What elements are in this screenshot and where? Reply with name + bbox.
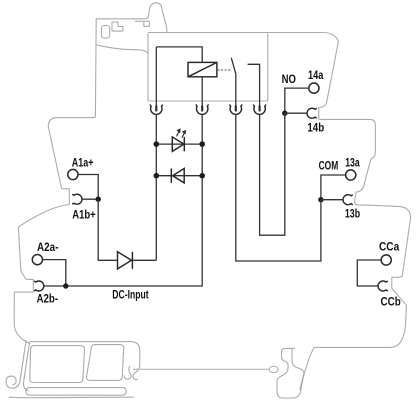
module outline: DIN rail edge line: [133, 366, 278, 372]
wire: left rail down to socket 1 pin: [155, 47, 157, 106]
module outline: bottom right foot: [277, 348, 314, 399]
svg-text:A1b+: A1b+: [72, 207, 95, 221]
NO fixed contact bracket: [248, 64, 260, 106]
wire: junction to 14b socket: [285, 112, 307, 114]
svg-text:A1a+: A1a+: [72, 156, 94, 170]
svg-text:CCa: CCa: [379, 240, 400, 254]
LED arrows: [177, 129, 186, 138]
junction dots on LED rails: [154, 141, 206, 178]
module outline: left profile with A-terminal steps: [14, 19, 96, 294]
svg-text:13b: 13b: [345, 207, 360, 221]
relay coil K1: [188, 62, 217, 76]
svg-text:COM: COM: [319, 159, 339, 173]
junction dot A1: [96, 197, 101, 202]
svg-text:14b: 14b: [307, 121, 324, 135]
wire: A1 junction down to diode: [98, 199, 117, 260]
terminal 14a circle: [309, 83, 319, 93]
socket connector 3: [229, 105, 242, 115]
svg-text:DC-Input: DC-Input: [112, 287, 148, 301]
wire: A2a- to junction: [42, 260, 65, 286]
socket connector 2: [196, 105, 209, 115]
terminal A2a- circle: [32, 255, 42, 265]
module outline: bottom left DIN-rail foot: [6, 293, 140, 397]
wire: A1b+ to junction: [82, 198, 98, 200]
socket connector 1: [150, 105, 163, 115]
wire: LED row 2: [156, 175, 202, 177]
wire: A2b- to junction: [44, 285, 66, 287]
svg-text:A2a-: A2a-: [37, 240, 59, 254]
junction dot 13: [318, 197, 323, 202]
socket connector 4: [253, 105, 266, 115]
terminal A1b+ socket: [72, 194, 82, 204]
module outline: top release lever clip: [96, 3, 167, 54]
svg-text:14a: 14a: [308, 68, 324, 82]
wire: CCa to CCb bracket: [357, 260, 381, 286]
wire: junction to 13b socket: [321, 199, 343, 201]
wire: NO net inner U from 14 junction to socket 4: [260, 113, 285, 235]
module outline: relay compartment box: [148, 34, 268, 102]
switch blade (movable contact): [231, 58, 236, 106]
junction dot 14: [282, 111, 287, 116]
diode V2 (anti-parallel): [171, 168, 184, 183]
svg-text:NO: NO: [282, 72, 296, 86]
terminal CCa circle: [381, 255, 391, 265]
svg-text:CCb: CCb: [381, 294, 401, 308]
module outline: top edge and right profile with terminal steps: [148, 33, 411, 348]
junction dot A2: [63, 283, 68, 288]
terminal A1a+ circle: [68, 169, 78, 179]
terminal A2b- socket: [34, 281, 44, 291]
terminal 14b socket: [307, 108, 317, 118]
dashed actuator link: [218, 69, 231, 71]
wire: LED row 1: [156, 143, 202, 145]
svg-text:A2b-: A2b-: [37, 291, 59, 305]
terminal CCb socket: [378, 281, 388, 291]
diode V3 (series input): [118, 252, 133, 269]
wire: A1a+ to junction: [78, 175, 98, 200]
wire: LED right rail down and DC-input return: [66, 114, 202, 286]
wire: coil bottom to socket 2 pin: [201, 77, 203, 106]
terminal 13a circle: [346, 170, 356, 180]
wire: LED left rail: [155, 114, 157, 260]
wire: coil top loop: [156, 47, 202, 63]
wire: 14a to junction: [285, 88, 309, 113]
wire: 13a to junction: [321, 175, 346, 200]
svg-text:13a: 13a: [345, 155, 360, 169]
terminal 13b socket: [343, 195, 353, 205]
LED V1 (indicator): [172, 137, 184, 152]
wire: COM net outer U from 13 junction to socket 3: [236, 114, 321, 261]
wire: diode to LED left rail: [132, 259, 156, 261]
